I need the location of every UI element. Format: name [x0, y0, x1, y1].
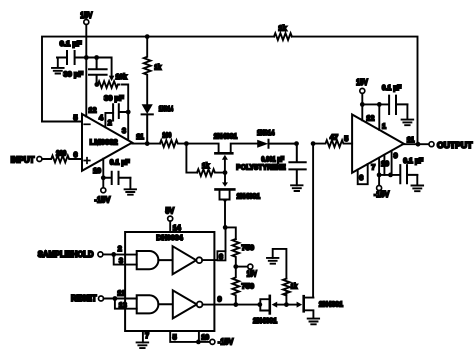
- AND gate 2: [137, 295, 159, 313]
- svg-text:0.1 µF: 0.1 µF: [60, 39, 82, 48]
- wire JFET2 to pin6 box: [225, 227, 227, 251]
- svg-text:3: 3: [119, 256, 123, 265]
- svg-text:1k: 1k: [202, 161, 210, 170]
- svg-text:10: 10: [93, 166, 101, 175]
- svg-text:6: 6: [219, 252, 223, 261]
- resistor R-1k vertical (to 1N914): [144, 37, 151, 105]
- capacitor C 0.1uF op2 bottom: [400, 165, 417, 183]
- capacitor C 0.001uF polystyrene: [289, 144, 305, 186]
- svg-text:1k: 1k: [278, 24, 287, 33]
- node 15V mid: [233, 264, 238, 269]
- svg-text:5V: 5V: [165, 205, 174, 215]
- svg-text:13: 13: [119, 301, 127, 310]
- svg-text:2N4391: 2N4391: [214, 132, 238, 141]
- diode D 1N914 horizontal: [257, 140, 268, 148]
- svg-text:12: 12: [366, 114, 374, 123]
- svg-text:15V: 15V: [356, 77, 368, 87]
- terminal -15V op2: [377, 186, 382, 191]
- pin 6 loop op2: [358, 164, 368, 184]
- ground storage cap: [291, 185, 302, 191]
- resistor R 1k gate: [197, 169, 225, 176]
- resistor R 750 upper: [232, 239, 239, 267]
- svg-text:7: 7: [371, 162, 375, 171]
- wire pin 3: [114, 254, 137, 264]
- svg-text:30 pF: 30 pF: [63, 69, 83, 78]
- pin 10 lead: [383, 155, 385, 175]
- wire 1k branch: [186, 144, 197, 173]
- svg-text:RESET: RESET: [71, 294, 97, 303]
- capacitor C 30pF left: [89, 58, 107, 85]
- wire node to 750 column: [225, 227, 236, 239]
- node top wire / 1k: [145, 34, 150, 39]
- svg-text:10k: 10k: [115, 72, 127, 81]
- pin 3 lead: [127, 112, 129, 140]
- svg-text:1N914: 1N914: [159, 104, 174, 113]
- wiper arrow of 10k: [109, 76, 115, 82]
- svg-text:15V: 15V: [80, 10, 92, 20]
- pin 7 lead: [378, 158, 380, 185]
- IC U3 DH0034 box: [125, 232, 214, 331]
- inverter 1: [158, 246, 196, 274]
- wire pin5 to left loop: [42, 121, 82, 123]
- svg-text:200: 200: [56, 148, 66, 157]
- wire output: [404, 143, 429, 145]
- resistor R 100: [160, 140, 187, 147]
- wire pin 13: [115, 299, 137, 309]
- svg-text:1: 1: [382, 122, 386, 131]
- ground top-left: [52, 58, 64, 74]
- svg-text:0.1 µF: 0.1 µF: [110, 158, 130, 167]
- terminal -15V DH0034: [210, 339, 215, 344]
- svg-text:5: 5: [344, 134, 348, 143]
- pin 10 lead: [102, 159, 104, 188]
- svg-text:750: 750: [242, 243, 255, 252]
- svg-text:3: 3: [122, 126, 126, 135]
- node 750 bottom: [233, 302, 238, 307]
- wire pin 2: [103, 253, 137, 255]
- pin 4 lead and wire: [105, 113, 113, 127]
- svg-text:2N4391: 2N4391: [319, 300, 343, 309]
- node JFET2 source: [223, 225, 228, 230]
- svg-text:12: 12: [117, 289, 125, 298]
- svg-text:0.1 µF: 0.1 µF: [403, 156, 423, 165]
- svg-text:14: 14: [173, 223, 181, 232]
- resistor R-1k top feedback: [274, 33, 292, 40]
- node 15V to 30pF: [94, 55, 99, 60]
- transistor Q3 2N4391 diode-connected: [257, 302, 262, 307]
- wire to -15V terminal: [199, 341, 210, 343]
- pin 7 ground lead: [142, 331, 144, 342]
- pin 14 lead: [169, 221, 171, 232]
- node to lower JFET: [311, 141, 316, 146]
- wire node to JFET1 drain: [186, 144, 218, 153]
- svg-text:11: 11: [407, 135, 415, 144]
- svg-text:10: 10: [381, 159, 389, 168]
- inverter 2: [158, 290, 196, 318]
- wire 1k to ground: [273, 249, 287, 279]
- svg-text:-15V: -15V: [374, 189, 390, 199]
- AND gate 1: [137, 251, 159, 269]
- wire -15V row: [379, 174, 400, 176]
- ground op2 bottom cap: [412, 175, 424, 191]
- svg-text:1N914: 1N914: [257, 128, 275, 137]
- svg-text:6: 6: [74, 150, 78, 159]
- ground Q4 source: [308, 319, 319, 325]
- pin 9 lead: [391, 151, 393, 175]
- transistor Q1 2N4391 series switch: [215, 152, 232, 155]
- node 15V rail: [84, 55, 89, 60]
- svg-text:100: 100: [162, 130, 171, 139]
- node output LM0032: [145, 141, 150, 146]
- terminal -15V LM0032: [101, 188, 106, 193]
- resistor R 47: [313, 140, 352, 147]
- svg-text:1k: 1k: [291, 281, 298, 290]
- capacitor C 0.1uF at pin10: [103, 172, 130, 184]
- svg-text:9: 9: [218, 295, 222, 304]
- potentiometer 10k: [97, 81, 120, 88]
- capacitor C 0.1uF top-left: [57, 51, 86, 64]
- svg-text:2N4391: 2N4391: [253, 316, 277, 325]
- resistor R 200 input: [42, 156, 82, 163]
- capacitor C 0.1uF op2 top: [389, 96, 407, 114]
- svg-text:2: 2: [118, 244, 122, 253]
- pin 6 box: [217, 251, 225, 260]
- op-amp U2 output buffer: [352, 115, 404, 173]
- svg-text:2: 2: [108, 118, 112, 127]
- svg-text:9: 9: [394, 151, 398, 160]
- wire long vertical to reset JFET: [312, 144, 314, 298]
- wire top feedback loop: [42, 37, 418, 145]
- wire LM0032 output: [132, 143, 160, 145]
- node output: [416, 142, 421, 147]
- wire pin 6: [202, 259, 217, 261]
- resistor R 750 lower: [232, 267, 239, 305]
- svg-text:INPUT: INPUT: [11, 156, 35, 165]
- svg-text:12: 12: [89, 106, 97, 115]
- svg-text:30 pF: 30 pF: [104, 94, 124, 103]
- wire 15V into pin 12: [361, 94, 363, 121]
- node gate junction: [223, 170, 228, 175]
- terminal 15V top: [84, 20, 89, 25]
- svg-text:0.1 µF: 0.1 µF: [382, 83, 402, 92]
- plus marker: [84, 158, 90, 164]
- svg-text:47: 47: [330, 133, 338, 142]
- diode D 1N914 vertical: [142, 104, 153, 114]
- node 10k left end: [94, 82, 99, 87]
- ground 1k bottom: [267, 258, 278, 264]
- svg-text:6: 6: [359, 173, 363, 182]
- wire 15V down to node and pin 12: [85, 25, 87, 117]
- svg-text:10: 10: [201, 333, 209, 342]
- transistor Q4 2N4391 reset switch: [297, 302, 303, 308]
- svg-text:-15V: -15V: [218, 336, 234, 346]
- svg-text:750: 750: [242, 282, 255, 291]
- svg-text:15V: 15V: [246, 268, 257, 278]
- node gates junction bottom: [284, 302, 289, 307]
- svg-text:5: 5: [173, 333, 177, 342]
- terminal 15V op2: [360, 88, 365, 93]
- svg-text:5: 5: [74, 113, 78, 122]
- svg-text:DH0034: DH0034: [156, 233, 183, 242]
- pin 1 lead: [378, 104, 380, 129]
- svg-text:7: 7: [145, 331, 149, 340]
- svg-text:11: 11: [136, 132, 144, 141]
- svg-text:1k: 1k: [154, 63, 162, 72]
- terminal 5V: [168, 216, 173, 221]
- node storage cap: [294, 141, 299, 146]
- capacitor C 30pF pins 2-3: [113, 104, 128, 120]
- ground pin 7: [137, 342, 149, 348]
- svg-text:4: 4: [99, 113, 103, 122]
- resistor R 1k bottom: [283, 279, 290, 305]
- wire to pot wiper: [86, 58, 111, 77]
- node pin10: [101, 175, 106, 180]
- terminal 15V mid: [236, 266, 248, 268]
- ground at pin10 cap: [125, 178, 136, 195]
- op-amp U1 LM0032: [82, 114, 132, 171]
- pins 5 and 10 sub-box: [170, 331, 199, 342]
- terminal OUTPUT: [429, 142, 434, 147]
- svg-text:POLYSTYRENE: POLYSTYRENE: [236, 163, 285, 172]
- minus marker: [84, 123, 90, 125]
- node after 100: [184, 141, 189, 146]
- wire pin 9 row: [203, 304, 260, 306]
- node pin3: [126, 110, 131, 115]
- transistor Q2 2N4391 vertical: [224, 173, 226, 184]
- svg-text:2N4391: 2N4391: [237, 191, 261, 200]
- svg-text:-15V: -15V: [94, 195, 110, 205]
- svg-text:SAMPLE/HOLD: SAMPLE/HOLD: [38, 250, 94, 259]
- svg-text:LM0032: LM0032: [90, 137, 118, 146]
- ground op2 top cap: [402, 104, 414, 125]
- wire pin 12: [104, 298, 137, 300]
- svg-text:OUTPUT: OUTPUT: [437, 141, 472, 150]
- wire 10k right to pin3 node: [122, 85, 128, 113]
- wire to bypass cap: [362, 103, 388, 105]
